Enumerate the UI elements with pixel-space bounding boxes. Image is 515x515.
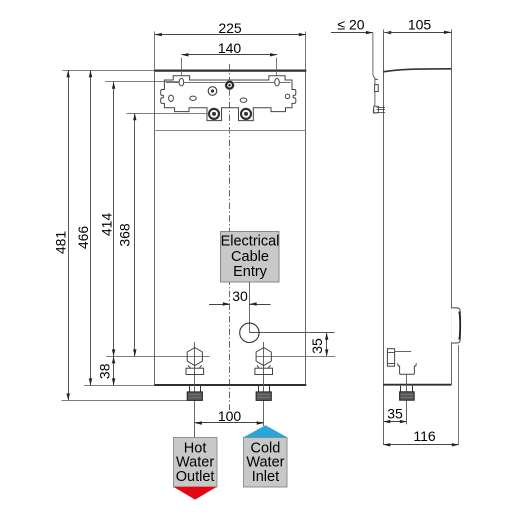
hot valve (186, 348, 204, 375)
cold inlet blue arrow (244, 425, 288, 437)
side view bottom edge (383, 384, 451, 386)
wall line (373, 33, 376, 113)
dimension 30 (209, 288, 271, 306)
side valve stem (406, 374, 408, 424)
dimension 100 (195, 408, 264, 425)
cold connector (256, 386, 271, 401)
side valve cup (398, 363, 417, 374)
bracket inner top line (166, 82, 291, 84)
dimension 368 (117, 113, 137, 356)
dimension 481 (53, 70, 70, 400)
bracket bottom screw left (209, 109, 219, 119)
side view back edge (383, 30, 385, 445)
bracket small oval left-center (190, 96, 197, 100)
left extension lines (63, 70, 155, 72)
hot valve centerline (194, 342, 196, 437)
bracket top screw (225, 80, 235, 90)
cold water inlet label (244, 438, 288, 488)
svg-text:38: 38 (96, 363, 112, 379)
svg-text:368: 368 (117, 223, 133, 247)
svg-text:100: 100 (218, 408, 242, 424)
hot water outlet label (174, 438, 218, 488)
side bracket screw (374, 106, 385, 113)
side valve pipe (387, 349, 411, 367)
side view top edge (383, 69, 451, 72)
svg-text:466: 466 (75, 226, 91, 250)
bracket oval hole left (179, 78, 184, 86)
cable entry leader lines (249, 282, 251, 333)
svg-text:Entry: Entry (233, 264, 268, 280)
svg-text:Electrical: Electrical (221, 234, 280, 250)
side view right edge (451, 30, 453, 385)
svg-text:30: 30 (232, 288, 248, 304)
dimension 116 (383, 345, 459, 447)
dimension 225 (155, 20, 306, 70)
cold valve (255, 348, 273, 375)
mounting bracket outline (161, 76, 296, 121)
svg-text:Cable: Cable (231, 249, 269, 265)
dimension le20 (331, 17, 391, 35)
dimension 105 (384, 17, 451, 34)
electrical cable entry label (221, 232, 280, 283)
side bracket profile (375, 79, 379, 91)
svg-text:225: 225 (218, 20, 242, 36)
dimension 466 (75, 70, 92, 385)
svg-text:35: 35 (309, 338, 325, 354)
dimension 38 (96, 356, 115, 385)
front panel seam (155, 130, 305, 132)
svg-text:140: 140 (218, 40, 242, 56)
front view centerline (229, 64, 231, 410)
svg-text:414: 414 (98, 213, 114, 237)
svg-text:481: 481 (53, 231, 69, 255)
cable entry hole (240, 323, 259, 342)
side flow knob bump (451, 308, 460, 343)
bracket small oval right-center (240, 98, 247, 102)
right extension at pipe level (256, 356, 335, 358)
dimension 35 right (309, 333, 328, 357)
dimension 140 (181, 40, 277, 75)
bracket small hole right (285, 94, 289, 98)
bracket bottom screw right (241, 109, 251, 119)
side connector (400, 386, 415, 400)
hot outlet red arrow (173, 487, 217, 500)
dimension 35 side (383, 405, 407, 423)
bracket oval hole right (275, 78, 280, 86)
bracket ring hole (208, 87, 217, 96)
hot connector (187, 386, 202, 401)
svg-text:116: 116 (413, 428, 436, 444)
dimension 414 (98, 82, 115, 357)
svg-text:Inlet: Inlet (252, 469, 279, 485)
svg-text:Outlet: Outlet (176, 469, 215, 485)
front view body (154, 70, 306, 385)
cold valve centerline (263, 342, 265, 426)
svg-text:35: 35 (387, 405, 403, 421)
svg-text:105: 105 (408, 17, 432, 33)
svg-text:≤ 20: ≤ 20 (337, 17, 364, 33)
bracket tall oval left (169, 95, 174, 101)
